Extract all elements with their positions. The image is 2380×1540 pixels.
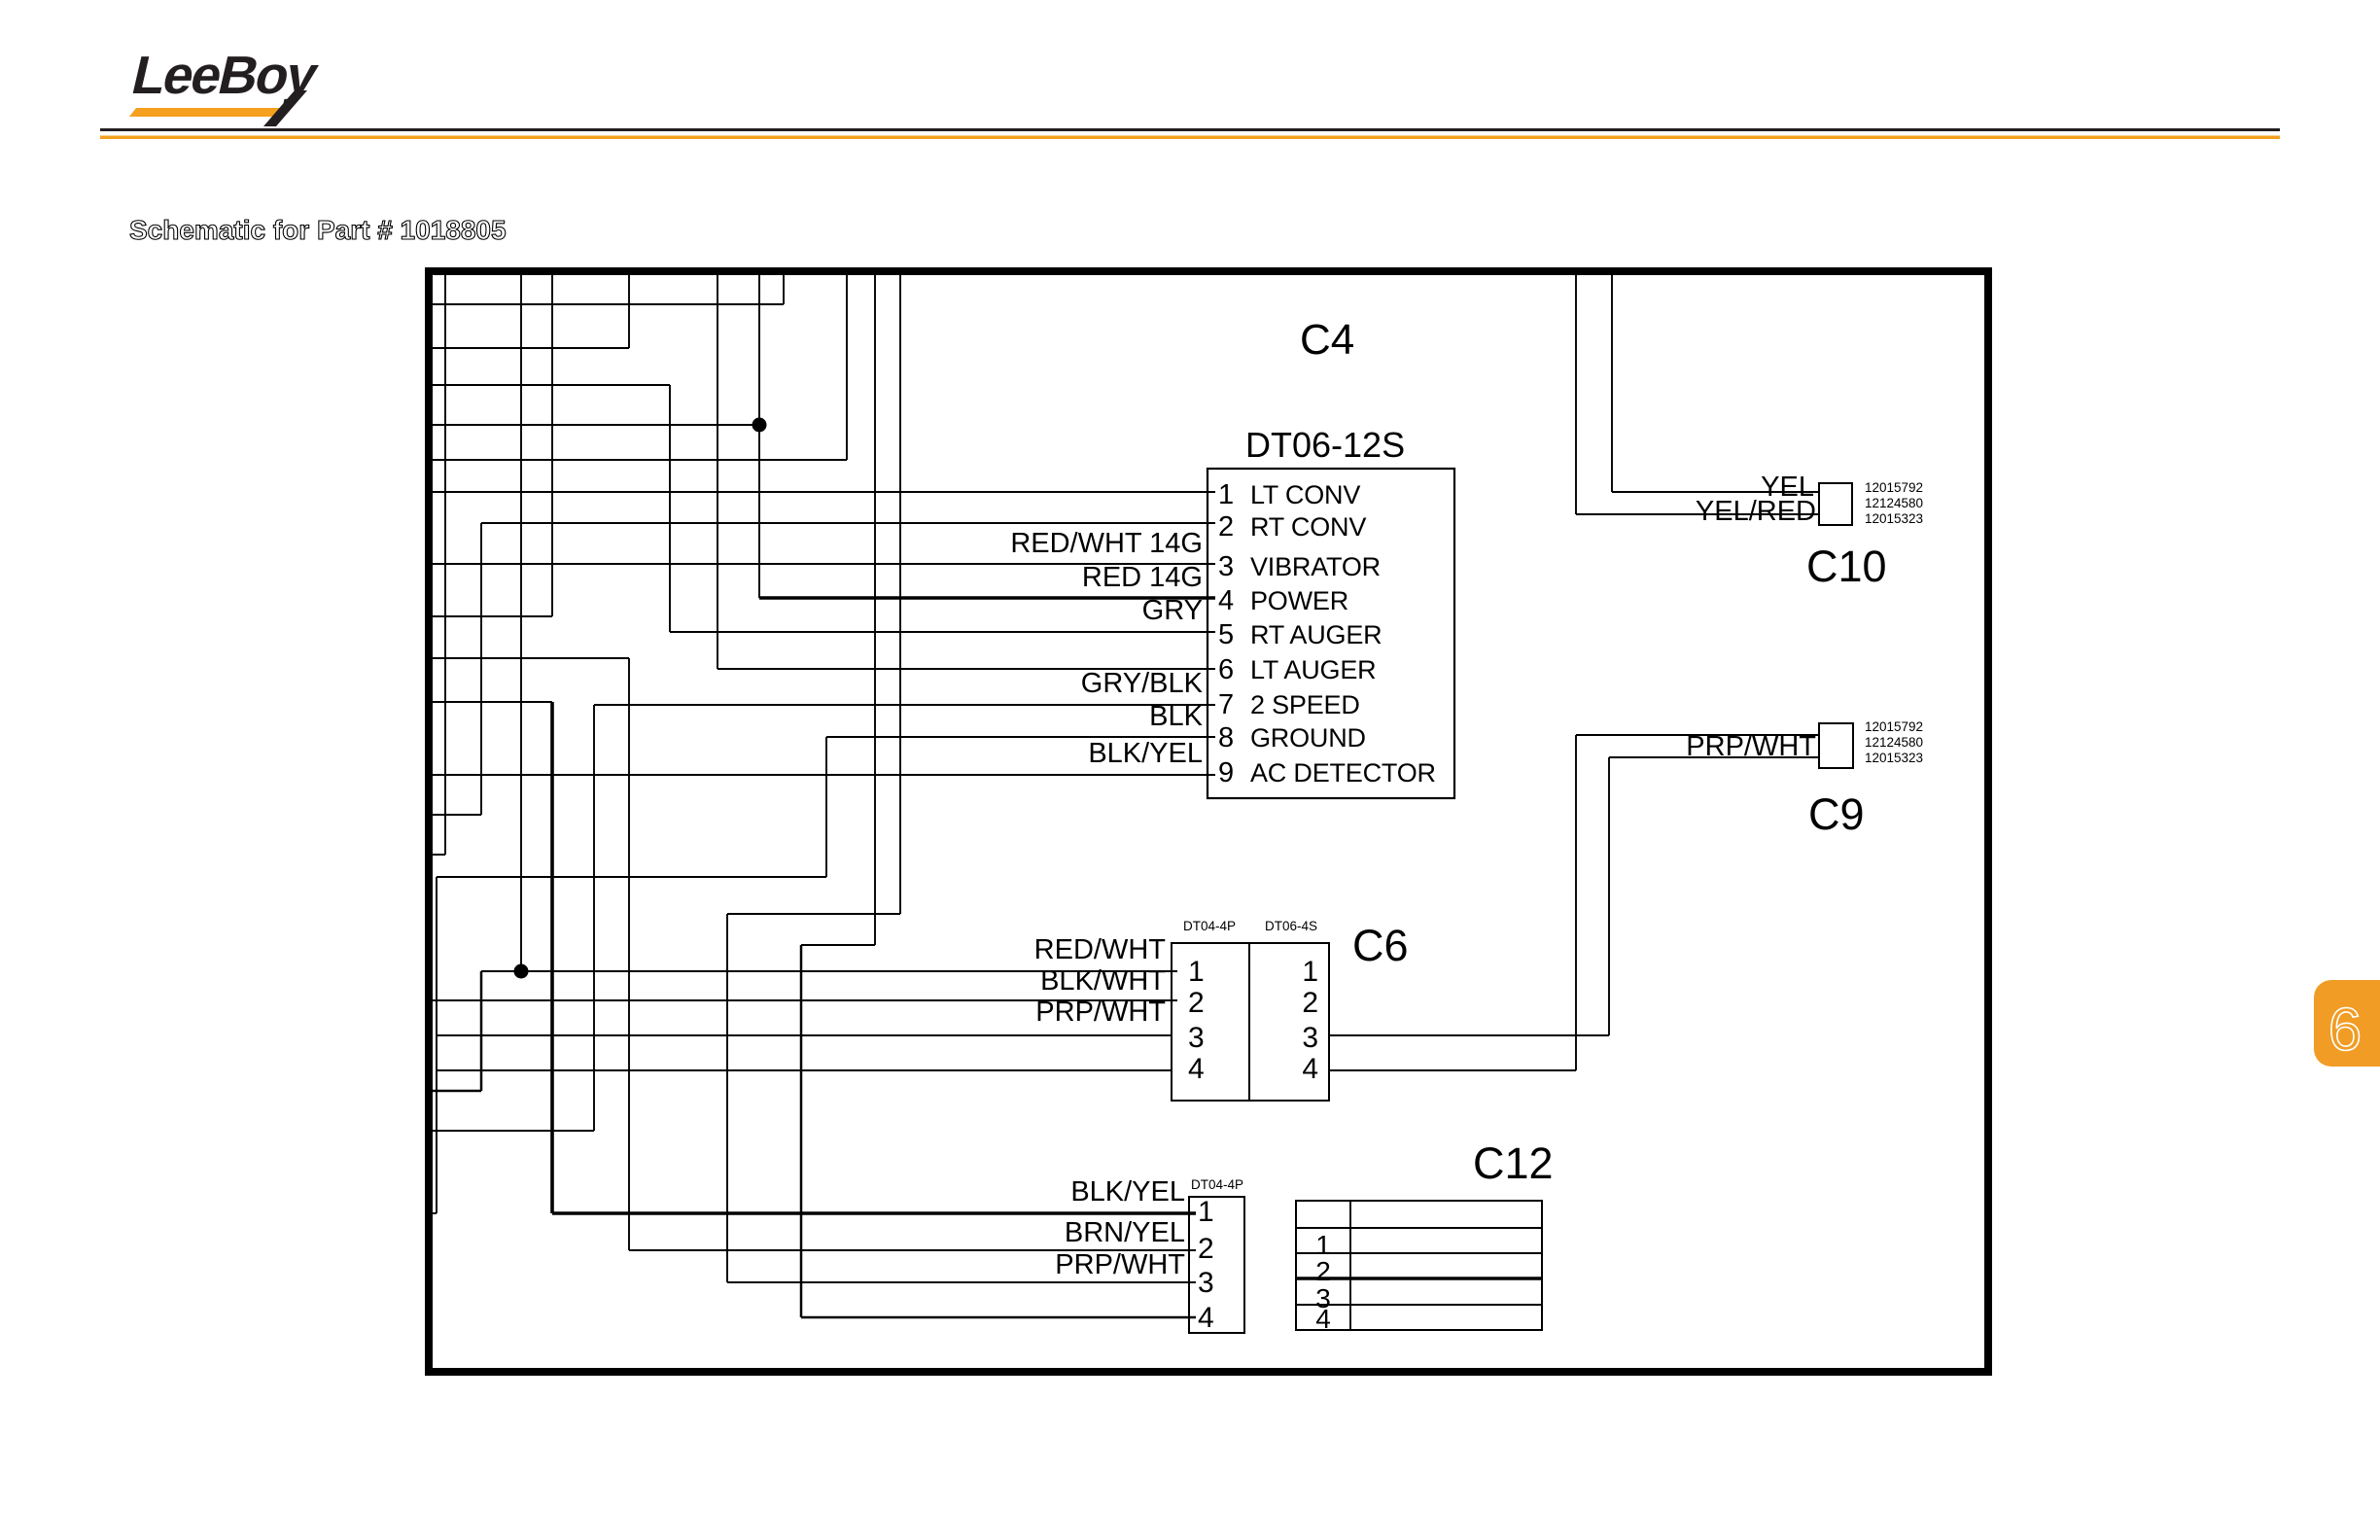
svg-text:GROUND: GROUND (1250, 723, 1366, 752)
LeeBoy logo text (126, 46, 324, 105)
wire C4 pin1 (429, 491, 1215, 493)
wire row y437 to junction (429, 424, 759, 426)
svg-text:BLK/YEL: BLK/YEL (1088, 738, 1203, 769)
svg-text:C9: C9 (1808, 789, 1865, 839)
wire row y313 (429, 303, 784, 305)
svg-text:12015792: 12015792 (1865, 719, 1923, 734)
connector C12 plug box DT04-4P (1189, 1197, 1244, 1333)
wire row y722 (429, 701, 552, 703)
wire row y634 (429, 615, 552, 617)
svg-text:5: 5 (1218, 619, 1234, 650)
svg-text:4: 4 (1315, 1304, 1331, 1334)
connector C10 box (1819, 483, 1852, 525)
svg-text:1: 1 (1188, 956, 1205, 988)
connector C4 box DT06-12S (1207, 469, 1454, 798)
wire C4 pin2 (481, 522, 1215, 524)
svg-text:9: 9 (1218, 757, 1234, 788)
svg-text:12124580: 12124580 (1865, 735, 1923, 750)
svg-text:C12: C12 (1473, 1138, 1554, 1188)
wire C9 lower (1609, 756, 1819, 758)
wire C6 pin4 to C9 (1329, 1069, 1576, 1071)
header black rule (100, 128, 2280, 131)
svg-text:DT06-12S: DT06-12S (1245, 425, 1405, 465)
wire C10 YEL/RED (1576, 513, 1819, 515)
svg-text:C6: C6 (1352, 921, 1409, 970)
wire row y902 (437, 876, 826, 878)
svg-text:BLK: BLK (1149, 701, 1203, 732)
wire C12 pin3 PRP/WHT (727, 1281, 1196, 1283)
wire v495 lower riser (480, 971, 483, 1091)
wire v1621 riser to C9 (1575, 735, 1577, 1070)
wire C6 pin3 to C9 (1329, 1034, 1609, 1036)
svg-text:12124580: 12124580 (1865, 496, 1923, 510)
logo orange swoosh (129, 108, 282, 117)
svg-text:2 SPEED: 2 SPEED (1250, 690, 1360, 719)
svg-text:BLK/YEL: BLK/YEL (1070, 1176, 1185, 1207)
svg-text:3: 3 (1218, 551, 1234, 582)
svg-text:YEL/RED: YEL/RED (1696, 496, 1816, 527)
wire v495 riser (480, 523, 482, 815)
svg-text:RT CONV: RT CONV (1250, 512, 1366, 542)
wire v871 drop (846, 275, 848, 460)
wire v647 upper drop (628, 275, 630, 348)
svg-text:2: 2 (1218, 511, 1234, 542)
svg-text:4: 4 (1188, 1053, 1205, 1085)
wire v850 riser (825, 737, 827, 877)
wire C4 pin9 BLK/YEL (429, 774, 1215, 776)
svg-text:RED/WHT: RED/WHT (1034, 934, 1167, 965)
svg-text:C10: C10 (1806, 542, 1887, 591)
svg-text:4: 4 (1198, 1302, 1214, 1334)
svg-text:1: 1 (1302, 956, 1318, 988)
wire row y358 (429, 347, 629, 349)
wire v926 drop (899, 275, 901, 914)
wire C6 pin3 PRP/WHT (437, 1034, 1172, 1036)
wire row y1163 (429, 1130, 594, 1132)
connector C9 box (1819, 723, 1853, 768)
svg-text:2: 2 (1315, 1256, 1331, 1286)
wire C4 pin7 GRY/BLK (594, 704, 1215, 706)
header orange rule (100, 136, 2280, 140)
svg-text:8: 8 (1218, 722, 1234, 753)
svg-text:12015792: 12015792 (1865, 480, 1923, 495)
wire v568 upper drop (551, 275, 553, 616)
wire row y473 (429, 459, 847, 461)
orange section tab 6 (2314, 980, 2380, 1067)
wire v458 drop (444, 275, 446, 855)
svg-text:4: 4 (1302, 1053, 1318, 1085)
wire v900 drop (874, 275, 876, 945)
junction dot B (514, 964, 529, 979)
svg-text:7: 7 (1218, 689, 1234, 720)
svg-text:3: 3 (1302, 1022, 1318, 1054)
svg-text:AC DETECTOR: AC DETECTOR (1250, 758, 1436, 787)
wire C4 pin4 RED 14G bold (759, 596, 1215, 600)
svg-text:Schematic for Part # 1018805: Schematic for Part # 1018805 (129, 215, 507, 245)
wire row y1122 (429, 1090, 481, 1093)
wire v536 drop to dot (520, 275, 522, 971)
junction dot A (752, 418, 767, 433)
wire row y838 (429, 814, 481, 816)
svg-text:BLK/WHT: BLK/WHT (1040, 965, 1166, 997)
svg-text:3: 3 (1188, 1022, 1205, 1054)
wire v689 drop (669, 385, 671, 632)
svg-text:C4: C4 (1300, 316, 1354, 364)
connector C6 right box DT06-4S (1249, 943, 1329, 1101)
wire C12 pin4 (801, 1316, 1196, 1319)
svg-text:6: 6 (1218, 654, 1234, 685)
wire row y879 (429, 854, 445, 856)
svg-text:LT CONV: LT CONV (1250, 480, 1360, 509)
svg-text:4: 4 (1218, 585, 1234, 616)
wire row y972 (801, 944, 875, 946)
svg-text:RT AUGER: RT AUGER (1250, 620, 1382, 649)
svg-text:3: 3 (1198, 1267, 1214, 1299)
wire v449 riser (436, 877, 437, 1213)
wire C9 PRP/WHT (1576, 734, 1819, 736)
svg-text:GRY/BLK: GRY/BLK (1081, 668, 1204, 699)
wire C10 YEL (1612, 491, 1819, 493)
svg-text:PRP/WHT: PRP/WHT (1055, 1249, 1185, 1280)
wire v1621 drop to C10 (1575, 275, 1577, 514)
svg-text:2: 2 (1198, 1233, 1214, 1265)
wire C4 pin6 (717, 668, 1215, 670)
svg-text:POWER: POWER (1250, 586, 1348, 615)
wire C12 pin1 BLK/YEL bold (552, 1211, 1196, 1215)
wire v1655 riser to C9 (1608, 757, 1610, 1035)
svg-text:6: 6 (2328, 997, 2362, 1064)
svg-text:RED 14G: RED 14G (1082, 562, 1203, 593)
schematic border frame (429, 271, 1988, 1372)
wire C12 pin2 BRN/YEL (629, 1249, 1196, 1251)
wire C6 pin1 RED/WHT (481, 970, 1177, 972)
connector C6 left box DT04-4P (1172, 943, 1249, 1101)
C12 pin table (1296, 1201, 1542, 1330)
LeeBoy logo y-tail stroke (263, 90, 307, 126)
svg-text:VIBRATOR: VIBRATOR (1250, 552, 1381, 581)
wire v1658 drop to C10 (1611, 275, 1613, 492)
wire row y940 (727, 913, 900, 915)
wire row y1248 (429, 1212, 437, 1214)
wire C6 pin2 BLK/WHT (429, 999, 1177, 1001)
svg-text:DT04-4P: DT04-4P (1191, 1177, 1243, 1192)
wire v748 drop (726, 914, 728, 1282)
wire v738 drop (717, 275, 718, 669)
svg-text:1: 1 (1218, 479, 1234, 510)
svg-text:PRP/WHT: PRP/WHT (1686, 731, 1816, 762)
wire C6 pin4 (437, 1069, 1172, 1071)
svg-text:DT06-4S: DT06-4S (1265, 919, 1317, 933)
wire row y677 (429, 657, 629, 659)
wire C4 pin3 RED/WHT 14G (429, 563, 1215, 565)
wire v824 drop (800, 945, 803, 1317)
wire v568 lower bold drop (550, 702, 554, 1213)
svg-text:1: 1 (1198, 1196, 1214, 1228)
svg-text:DT04-4P: DT04-4P (1183, 919, 1236, 933)
wire v806 drop (783, 275, 785, 304)
svg-text:PRP/WHT: PRP/WHT (1035, 997, 1166, 1028)
svg-text:RED/WHT 14G: RED/WHT 14G (1010, 528, 1203, 559)
svg-text:12015323: 12015323 (1865, 511, 1923, 526)
wire v611 riser (593, 705, 595, 1131)
wire v647 lower drop (628, 658, 630, 1250)
wire v781 drop (758, 275, 760, 598)
svg-text:BRN/YEL: BRN/YEL (1065, 1217, 1185, 1248)
svg-text:2: 2 (1302, 987, 1318, 1019)
svg-text:2: 2 (1188, 987, 1205, 1019)
wire row y396 (429, 384, 670, 386)
svg-text:LT AUGER: LT AUGER (1250, 655, 1376, 684)
wire C4 pin5 GRY (670, 631, 1215, 633)
svg-text:GRY: GRY (1142, 595, 1203, 626)
svg-text:12015323: 12015323 (1865, 751, 1923, 765)
wire C4 pin8 BLK (826, 736, 1215, 738)
